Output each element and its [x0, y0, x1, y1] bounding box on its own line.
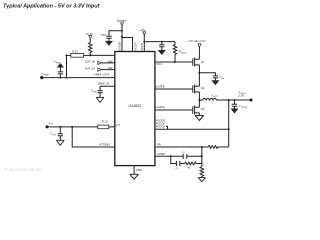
svg-text:TT: TT: [51, 124, 54, 126]
wire pgood step: [166, 126, 168, 129]
wire comp lower branch: [171, 156, 177, 163]
svg-text:BK: BK: [94, 91, 97, 93]
transistor Q2: [193, 85, 195, 94]
wire 5VSBY pin stubs: [121, 31, 123, 37]
svg-text:SLP_S5: SLP_S5: [85, 60, 96, 64]
svg-text:OUT: OUT: [214, 96, 219, 98]
wire +5V pin stub: [143, 42, 145, 52]
svg-text:VDDQ: VDDQ: [241, 107, 248, 109]
svg-text:GND: GND: [136, 168, 142, 172]
ground: [231, 109, 238, 113]
node VDDQ output terminal: [250, 99, 253, 102]
wire pin stub: [121, 37, 123, 52]
ground: [195, 116, 204, 121]
capacitor C6 output: [232, 100, 237, 109]
svg-text:VTTSNS: VTTSNS: [99, 142, 110, 146]
ground: [56, 140, 64, 145]
svg-text:BS: BS: [221, 78, 224, 80]
svg-text:S3#: S3#: [108, 66, 113, 70]
svg-text:PULL: PULL: [181, 52, 187, 54]
svg-text:5VSBY: 5VSBY: [117, 19, 127, 23]
wire node to IC: [90, 54, 115, 56]
capacitor CREF (to up-ground): [66, 77, 68, 79]
pin VCC wire (right, gate drive): [155, 61, 193, 63]
svg-text:R 10: R 10: [102, 120, 108, 124]
svg-text:PGOOD: PGOOD: [156, 125, 166, 128]
svg-text:LGATE: LGATE: [156, 105, 165, 109]
resistor R6 (divider low): [200, 167, 203, 178]
svg-text:VREF_IN: VREF_IN: [98, 82, 110, 86]
svg-text:Q2: Q2: [201, 86, 205, 90]
resistor R1: [89, 39, 92, 55]
transistor Q3: [193, 106, 195, 115]
capacitor C4 (snubber): [199, 73, 218, 81]
wire output feedback vertical: [228, 100, 230, 147]
svg-text:VREF_OUT: VREF_OUT: [94, 72, 110, 76]
pin GND: [133, 166, 135, 175]
wire to capacitor C1: [109, 31, 122, 37]
ground: [212, 81, 219, 85]
wire phase upper: [198, 65, 200, 86]
svg-text:SLP_S3: SLP_S3: [85, 66, 96, 70]
svg-text:C5S: C5S: [101, 33, 106, 37]
svg-text:ISL6532: ISL6532: [129, 104, 142, 108]
svg-text:+5V OR +3.3V: +5V OR +3.3V: [188, 39, 206, 43]
svg-text:6-32-36151 48-35: 6-32-36151 48-35: [5, 167, 42, 172]
wire 5VSBY down: [121, 26, 123, 31]
op-amp U1 (controller IC ISL6532 body): [115, 52, 155, 166]
capacitor C7 (comp upper): [171, 154, 202, 159]
svg-text:Q3: Q3: [201, 107, 205, 111]
wire VTT: [47, 126, 98, 128]
resistor R4 (feedback): [208, 146, 229, 149]
svg-text:REF: REF: [45, 75, 50, 77]
capacitor C8 (comp series): [176, 161, 184, 166]
wire Q3 source to ground: [198, 113, 200, 116]
svg-text:R2: R2: [188, 168, 192, 170]
svg-text:+3.3V: +3.3V: [85, 32, 94, 36]
svg-text:C1: C1: [182, 152, 186, 154]
wire down to VREF line: [66, 55, 68, 77]
wire FB node vertical: [201, 147, 203, 167]
ground: [158, 50, 165, 54]
wire left: [84, 54, 90, 56]
svg-text:UGATE: UGATE: [155, 84, 165, 88]
ground: [106, 41, 113, 45]
svg-text:Typical Application - 5V or 3.: Typical Application - 5V or 3.3V Input: [3, 4, 101, 10]
svg-text:C2: C2: [176, 168, 180, 170]
wire output: [217, 99, 251, 101]
resistor R5 (comp series): [185, 162, 202, 165]
wire +5V down: [143, 35, 145, 41]
ground: [96, 97, 104, 102]
svg-text:COMP: COMP: [157, 152, 166, 156]
wire +5V rail: [144, 41, 175, 43]
svg-text:VCC5: VCC5: [140, 42, 144, 50]
svg-text:Q1: Q1: [201, 60, 205, 64]
capacitor C2 (VCC decoupling): [159, 42, 164, 51]
svg-text:5VSBY: 5VSBY: [118, 41, 122, 51]
wire pgood long: [155, 128, 229, 130]
svg-text:VTT: VTT: [116, 123, 121, 127]
svg-text:VCC: VCC: [156, 62, 162, 66]
wire VTTSNS: [72, 127, 115, 147]
svg-text:VTT: VTT: [52, 134, 57, 136]
svg-text:R 10: R 10: [72, 49, 78, 53]
transistor Q1: [193, 58, 195, 67]
svg-text:FB: FB: [157, 143, 161, 147]
ground: [198, 178, 205, 182]
svg-text:VCCP: VCCP: [133, 42, 137, 50]
wire phase node: [198, 92, 200, 107]
svg-text:2.5V: 2.5V: [239, 94, 245, 98]
ground (up): [57, 64, 63, 68]
svg-text:S5#: S5#: [108, 59, 113, 63]
